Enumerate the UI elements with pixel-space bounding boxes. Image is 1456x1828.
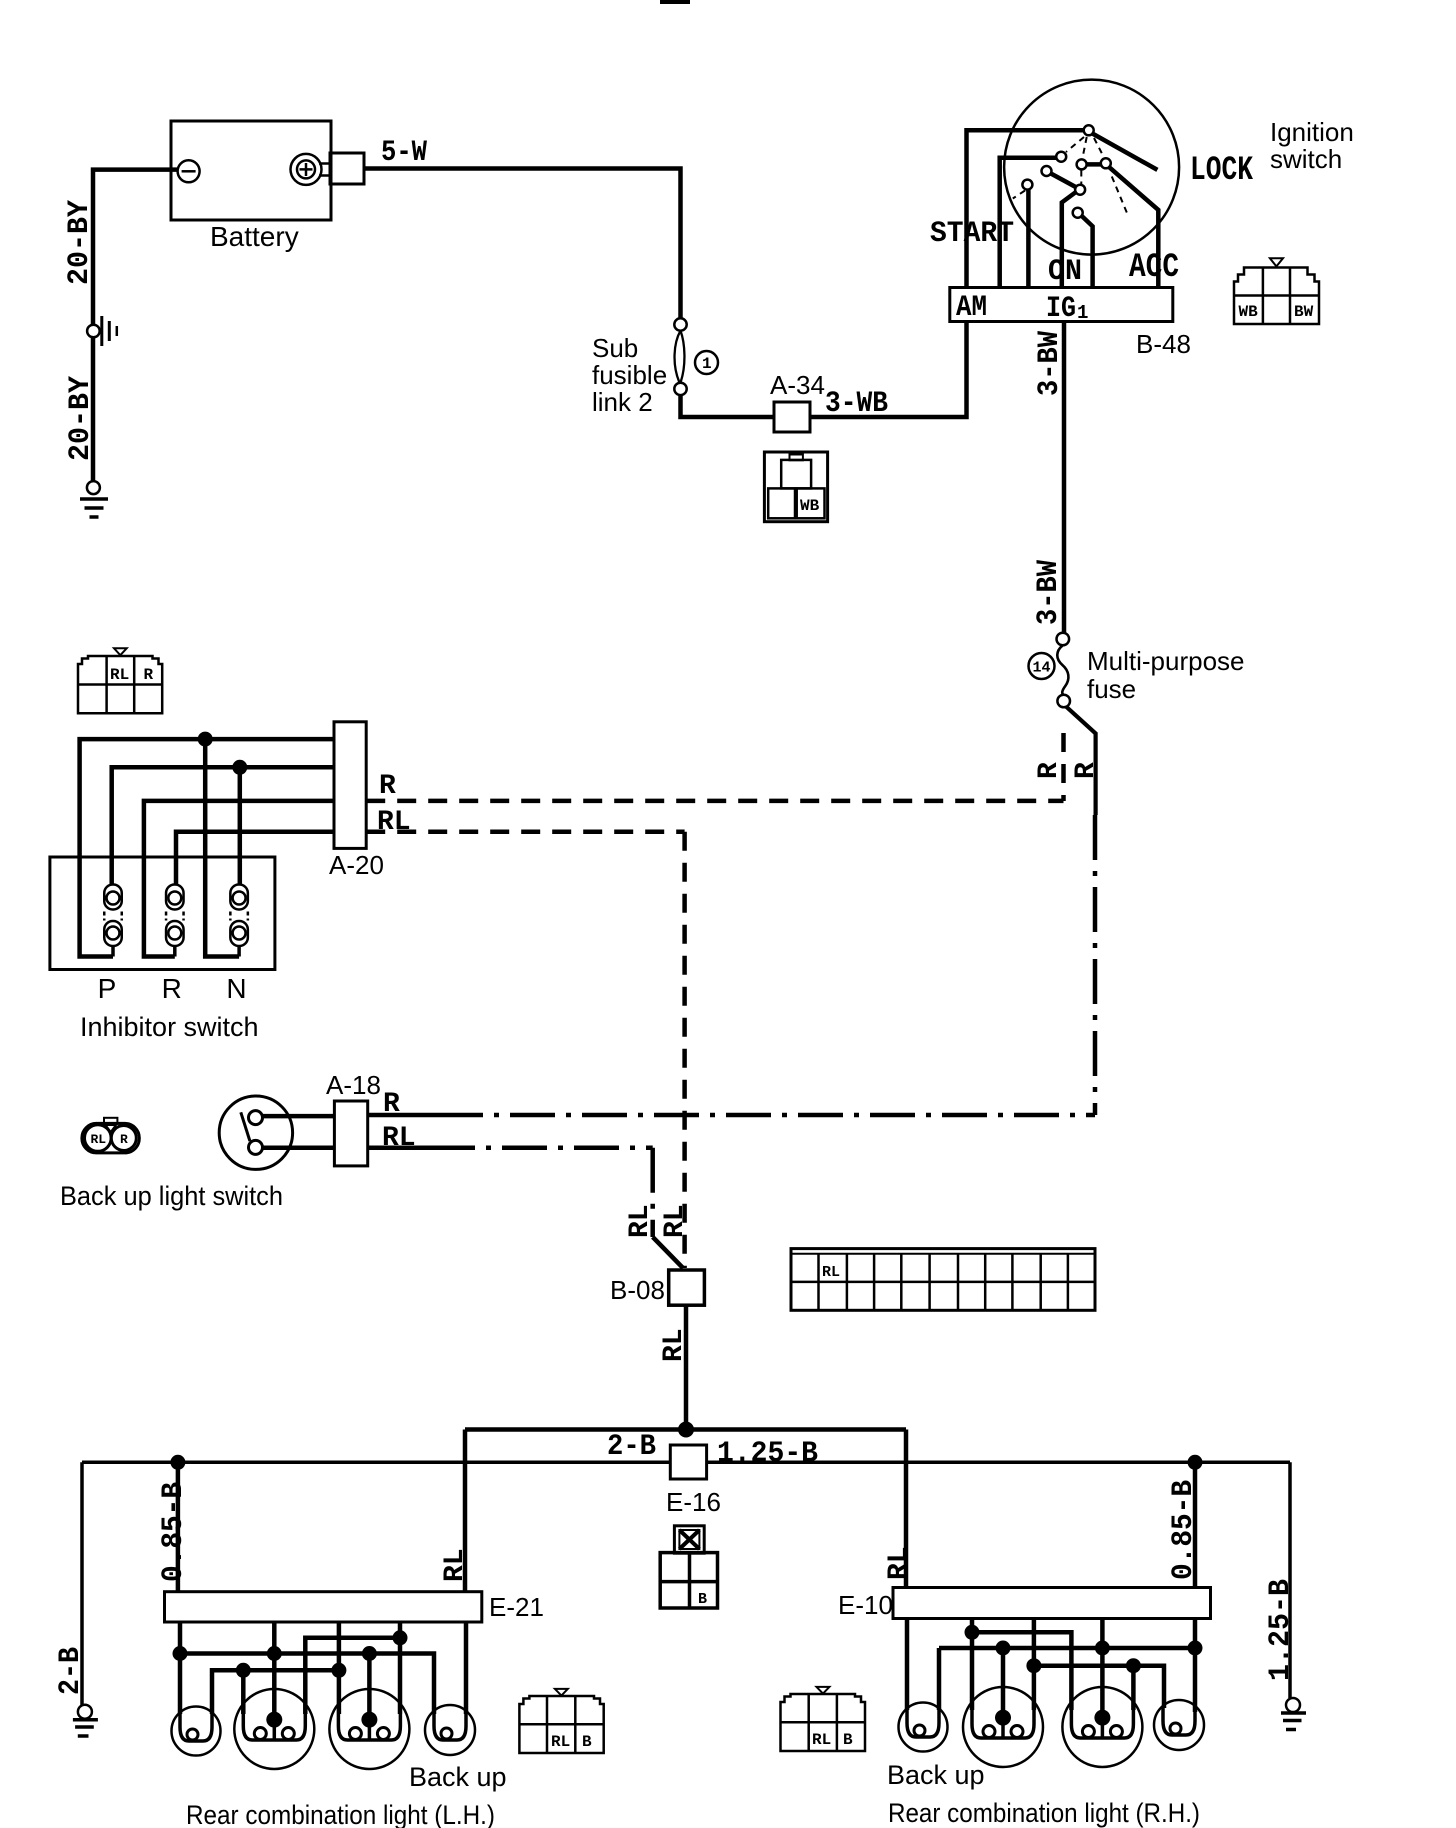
svg-text:Multi-purpose: Multi-purpose [1087,646,1245,676]
E-10 pin RL wire [905,1619,910,1711]
wire inhibitor P bottom [80,739,334,956]
bulb1 LH [172,1707,221,1756]
svg-text:B-08: B-08 [610,1275,665,1305]
bulb2 RH filament dot [995,1710,1011,1726]
junction dot on H3 right [1126,1658,1141,1673]
connector E-16 [670,1445,706,1479]
connector view E-16 [660,1526,717,1608]
svg-text:B-48: B-48 [1136,329,1191,359]
diagonal contact link [1049,173,1078,189]
wire inhibitor N bottom [205,739,239,956]
connector A-18 [334,1101,367,1166]
junction dot [232,760,247,775]
wire battery negative to ground [93,170,178,325]
svg-text:RL: RL [660,1204,691,1238]
svg-text:ACC: ACC [1129,249,1179,287]
inhibitor contact P [104,885,122,957]
bulb2 RH [963,1687,1043,1767]
bulb1 RH right lead to ground bus [937,1648,942,1710]
bulb4 LH back up [425,1705,475,1755]
svg-text:RL: RL [812,1731,831,1749]
E-21 pin 1 wire [178,1622,183,1714]
svg-text:20-BY: 20-BY [64,376,98,461]
wire R from A-18 [368,1113,438,1118]
tail bus H3 right [1034,1666,1164,1708]
svg-text:RL: RL [551,1733,570,1751]
svg-text:1: 1 [1077,302,1088,324]
rail RL upper [465,1427,906,1432]
svg-text:R: R [162,973,182,1004]
multi-purpose fuse [1029,633,1070,708]
svg-text:2-B: 2-B [54,1647,88,1695]
bulb3 LH [329,1689,409,1769]
ignition switch circle [1004,80,1179,255]
lock pointer line [1093,134,1158,170]
svg-text:2-B: 2-B [607,1430,656,1464]
svg-text:link 2: link 2 [592,387,653,417]
connector view A-20 [78,648,162,713]
wire 0.85-B left [176,1462,181,1591]
back up light switch [219,1096,292,1169]
svg-text:B: B [843,1731,853,1749]
inhibitor switch box [50,857,275,970]
svg-text:Ignition: Ignition [1270,117,1354,147]
svg-text:3-BW: 3-BW [1033,331,1067,396]
svg-text:RL: RL [822,1264,840,1281]
drop to bulb3 RH right lead [1131,1666,1136,1710]
svg-text:3-BW: 3-BW [1032,560,1066,625]
tail bus H3 left [212,1670,341,1714]
svg-text:E-21: E-21 [489,1592,544,1622]
connector A-34 [774,402,810,432]
svg-text:Rear combination light (R.H.): Rear combination light (R.H.) [888,1798,1200,1828]
bulb3 filament dot [361,1712,377,1728]
E-21 pin 5 RL wire [464,1622,469,1714]
wires to A-18 [263,1114,335,1119]
svg-text:B: B [582,1733,592,1751]
wire fusible link to A-34 [681,395,775,417]
wire contact 3 [1026,190,1031,291]
stop bus H1 left [305,1638,400,1714]
svg-text:B: B [698,1591,707,1608]
wire 2-B to ground left [80,1462,84,1705]
svg-text:fusible: fusible [592,360,667,390]
wire ON contact [1062,192,1077,291]
svg-text:A-34: A-34 [770,370,825,400]
wire 20-BY lower [91,338,96,482]
ground bottom right [1281,1698,1306,1730]
svg-text:WB: WB [800,497,820,515]
wire contact 5 [1082,216,1093,290]
wire 5-W [364,169,681,319]
svg-text:BW: BW [1294,303,1314,321]
connector view E-10 face [781,1687,866,1751]
ground bottom left [73,1705,98,1736]
svg-text:IG: IG [1046,292,1076,326]
bulb3 RH [1062,1687,1142,1767]
svg-text:Inhibitor switch: Inhibitor switch [80,1012,259,1042]
svg-text:E-16: E-16 [666,1487,721,1517]
connector view A-18 [82,1118,139,1153]
svg-text:P: P [98,973,117,1004]
E-21 pin 2 wire [272,1622,277,1720]
wire 3-BW [1062,322,1067,634]
ground bus H2 left [180,1654,434,1715]
svg-text:switch: switch [1270,144,1342,174]
wire R dashed branch vertical [1061,733,1066,801]
svg-text:LOCK: LOCK [1190,152,1253,190]
drop to bulb3 centre [367,1654,372,1720]
svg-text:RL: RL [110,666,129,684]
svg-text:A-18: A-18 [326,1070,381,1100]
wire 0.85-B right [1193,1462,1198,1712]
stop bus H1 right [972,1632,1071,1710]
svg-text:20-BY: 20-BY [63,200,97,285]
connector view A-34 [764,452,827,522]
connector view E-21 face [519,1689,603,1753]
ignition dashed positions [1013,137,1127,213]
AM IG1 box [950,288,1173,322]
svg-text:AM: AM [956,291,987,325]
junction dot ground left [170,1455,185,1470]
svg-text:R: R [144,666,154,684]
wire inhibitor R bottom [144,801,334,957]
svg-text:Back up: Back up [887,1760,985,1790]
bar between mid contacts [1083,162,1104,167]
wire contact 2 [1000,158,1056,290]
connector E-21 [165,1592,482,1622]
bulb2 LH [234,1689,314,1769]
wire inhibitor P top [112,767,334,884]
junction dots on H3 [236,1663,251,1678]
svg-text:RL: RL [377,807,411,838]
switch lever [241,1112,250,1141]
ground rail lower [82,1461,1290,1465]
svg-text:Rear combination light (L.H.): Rear combination light (L.H.) [186,1800,495,1828]
wire B-08 down [684,1305,689,1429]
connector B-08 [669,1270,705,1305]
wire R dash-dot vertical [1093,815,1098,1115]
wire RL dashed from A-20 [366,830,684,835]
svg-text:14: 14 [1033,660,1051,677]
E-10 pin 3 wire [1032,1619,1037,1711]
E-10 pin 4 wire [1100,1619,1105,1718]
svg-text:RL: RL [884,1546,915,1580]
junction dots on H2 [267,1646,282,1661]
wire AM contact [967,130,1085,290]
svg-text:5-W: 5-W [381,136,427,170]
switch contacts [249,1111,263,1125]
svg-text:RL: RL [440,1548,471,1582]
svg-text:ON: ON [1048,255,1082,289]
svg-text:R: R [1034,762,1065,779]
ground (battery earth) [80,481,108,517]
junction dot on pin3 [1026,1658,1041,1673]
bulb2 filament dot [266,1712,282,1728]
wire RL to E-10 [904,1430,909,1588]
connector A-20 [334,722,366,849]
wire inhibitor N top [238,767,243,884]
ignition contacts [1022,125,1110,217]
junction dot on pin2 [965,1625,980,1640]
junction dot [173,1646,188,1661]
body ground (upper) [87,316,117,346]
wire ACC contact [1109,167,1159,290]
wire R dashed horizontal to A-20 [366,799,1063,804]
E-21 pin 3 wire [337,1622,342,1714]
svg-text:RL: RL [91,1132,107,1147]
svg-text:RL: RL [625,1204,656,1238]
svg-text:1.25-B: 1.25-B [717,1437,818,1471]
svg-text:R: R [1071,762,1102,779]
svg-text:WB: WB [1239,303,1259,321]
connector view B-48 [1234,258,1319,324]
svg-text:A-20: A-20 [329,850,384,880]
drop to bulb2 RH centre [1001,1648,1006,1718]
sub fusible link 2 [674,318,718,395]
svg-text:R: R [120,1132,128,1147]
svg-text:E-10: E-10 [838,1590,893,1620]
svg-text:fuse: fuse [1087,674,1136,704]
svg-text:R: R [379,771,396,802]
svg-text:Battery: Battery [210,221,299,252]
svg-text:0.85-B: 0.85-B [157,1482,191,1582]
junction dot on pin4 [393,1630,408,1645]
wire RL from A-18 [368,1146,430,1151]
bulb1 RH back up [899,1703,948,1752]
junction dot ground right [1188,1455,1203,1470]
svg-text:Back up: Back up [409,1762,507,1792]
bulb3 RH filament dot [1094,1710,1110,1726]
svg-text:Sub: Sub [592,333,638,363]
junction dots on H2 right [996,1641,1011,1656]
svg-text:1.25-B: 1.25-B [1264,1579,1298,1681]
junction dot main [678,1422,694,1438]
E-21 pin 4 wire [398,1622,403,1714]
wire RL to E-21 [463,1430,468,1592]
svg-text:START: START [930,217,1014,251]
inhibitor contact N [230,885,248,957]
svg-text:0.85-B: 0.85-B [1167,1480,1201,1580]
connector E-10 [893,1588,1211,1619]
inhibitor contact R [166,885,184,957]
scan mark top [660,0,690,4]
ground bus H2 right [939,1646,1195,1651]
connector view B-08 strip [791,1249,1095,1311]
svg-text:RL: RL [659,1328,690,1362]
wire 3-WB to AM [810,322,967,417]
wire 1.25-B to ground right [1288,1462,1292,1698]
wire fuse to R branch [1066,707,1096,816]
drop to bulb2 left lead [241,1670,246,1714]
E-10 pin 2 wire [970,1619,975,1711]
battery [171,121,364,220]
svg-text:N: N [226,973,246,1004]
wire inhibitor R top [176,832,334,885]
bulb4 RH [1154,1700,1204,1750]
svg-text:1: 1 [702,355,712,373]
svg-text:Back up light switch: Back up light switch [60,1181,283,1211]
junction dot [198,732,213,747]
